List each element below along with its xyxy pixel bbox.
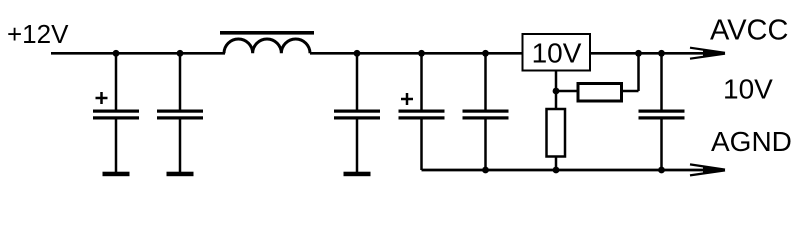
net label +12V — [7, 19, 69, 49]
node junction R2/AGND — [553, 167, 560, 174]
wire adj to resistor R1 — [556, 90, 577, 93]
AGND rail wire — [422, 169, 707, 172]
node junction at C5 — [482, 50, 489, 57]
net label AVCC — [710, 14, 788, 46]
wire +12V input to inductor — [51, 52, 225, 55]
voltage regulator U1 10V — [523, 34, 591, 71]
node junction at C1 — [113, 50, 120, 57]
ground at C1 — [103, 172, 130, 177]
resistor R2 — [547, 109, 566, 157]
wire adj to resistor R2 — [555, 91, 558, 109]
capacitor C3 — [334, 53, 380, 172]
svg-text:AGND: AGND — [711, 126, 792, 157]
wire R1 to AVCC net — [622, 53, 639, 91]
AGND output arrow — [690, 164, 726, 175]
wire inductor to 10V regulator — [310, 52, 523, 55]
ground at C2 — [167, 172, 194, 177]
svg-text:10V: 10V — [532, 37, 582, 68]
AVCC output arrow — [690, 48, 726, 59]
node junction C5/AGND — [482, 167, 489, 174]
polarized capacitor C4 — [399, 53, 445, 170]
wire regulator output to AVCC arrow — [590, 52, 706, 55]
node junction at C4 — [418, 50, 425, 57]
capacitor C6 — [639, 53, 685, 170]
svg-text:AVCC: AVCC — [710, 14, 788, 46]
net label 10V output — [723, 74, 773, 105]
node junction at C2 — [177, 50, 184, 57]
node junction at C3 — [354, 50, 361, 57]
svg-text:+12V: +12V — [7, 19, 69, 49]
node junction C6/AGND — [658, 167, 665, 174]
capacitor C2 — [157, 53, 203, 172]
ground at C3 — [344, 172, 371, 177]
resistor R1 — [578, 84, 622, 102]
capacitor C5 — [463, 53, 509, 170]
polarized capacitor C1 — [93, 53, 139, 172]
net label AGND — [711, 126, 792, 157]
node junction adj — [553, 88, 560, 95]
svg-text:10V: 10V — [723, 74, 773, 105]
wire regulator adj pin down — [555, 71, 558, 93]
inductor L1 — [220, 31, 314, 53]
node junction R1/AVCC — [635, 50, 642, 57]
node junction C6/AVCC — [658, 50, 665, 57]
wire R2 to AGND rail — [555, 157, 558, 171]
